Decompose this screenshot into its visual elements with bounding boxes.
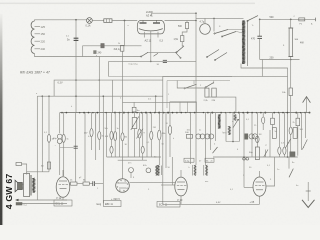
wire x210 vertical (210, 113, 212, 150)
divider resistor R6 (212, 88, 217, 102)
resistor R15 (158, 130, 167, 140)
label 4W right (300, 42, 304, 45)
node rail96 b (48, 95, 50, 97)
node HT b (195, 20, 197, 22)
black scan edge left (0, 14, 3, 225)
wire x147 (146, 113, 148, 157)
potentiometer P1 (137, 113, 144, 157)
misc value labels (36, 16, 313, 191)
switch S1b (176, 46, 184, 53)
wire x85 vertical (84, 113, 86, 182)
node rail96 a (42, 95, 44, 97)
tap 150 (35, 32, 46, 36)
wire coil bottom to bottom bus (35, 54, 142, 57)
resistor R8 (62, 134, 65, 142)
label box V11 (104, 201, 122, 207)
switch S2 arm b (221, 32, 236, 38)
tap 220 (35, 40, 46, 44)
label lang (97, 203, 102, 206)
cathode lead down (150, 31, 152, 62)
switch S2 arm a (214, 30, 228, 35)
wire down from node 259 (259, 19, 261, 36)
electrolytic C15 tall (249, 113, 259, 160)
ground bus junction dots (61, 112, 310, 114)
wire line y160 (118, 159, 147, 161)
wire right line y157 (213, 156, 298, 158)
capacitor C6 40u (53, 134, 62, 144)
variable capacitor C14 (233, 119, 239, 128)
wire x233 vertical (232, 113, 234, 142)
wire y52 to right (147, 51, 176, 53)
capacitor C17 dark (290, 152, 295, 157)
wire x122 upper (122, 102, 124, 132)
trimmer C9 (131, 113, 139, 157)
tuning coil L3 (218, 115, 221, 129)
coil can box (170, 102, 197, 113)
resistor R14 (150, 131, 153, 140)
tap 125 (35, 25, 46, 29)
wavechange switch arm 2 (205, 80, 214, 88)
coil assembly right of V10 (192, 113, 196, 176)
label 470 (223, 132, 227, 134)
switch arm right (289, 157, 293, 177)
wire x119 (119, 113, 121, 157)
resistor R9b (98, 132, 105, 140)
node fuse-out junction (124, 20, 126, 22)
switch arm set 2b (214, 53, 227, 61)
coil assembly left of V10 (156, 166, 162, 176)
resistor R17 above speaker (16, 163, 27, 175)
wire x76 lower segment (75, 113, 77, 182)
wire mains vertical (75, 20, 77, 113)
capacitor C20 dark (245, 134, 249, 140)
label 0,1u pair (129, 64, 160, 66)
resistor R12 (114, 132, 117, 141)
rail y96 (37, 95, 163, 97)
wire x59 lower (59, 144, 61, 175)
wire x59 vertical (59, 113, 61, 133)
coil L2 zigzag (157, 165, 159, 176)
transformer core line (247, 21, 249, 67)
resistor R21 (278, 113, 281, 157)
wire y61 line (109, 60, 196, 62)
wire top right line (260, 16, 316, 19)
wire x159 lower (158, 140, 160, 165)
mains switch S1d (176, 52, 182, 58)
wire x262 drop (261, 60, 263, 77)
wire x106 (106, 113, 108, 157)
output transformer core (31, 175, 32, 196)
resistor R18 (168, 113, 171, 157)
resistor R2 in antenna line (299, 18, 305, 25)
label V10 (177, 198, 183, 202)
switch arm set 2a (206, 50, 219, 58)
wire x190 vertical (190, 113, 192, 164)
divider resistor R5 (204, 88, 210, 102)
wire fuse to rectifier (112, 20, 137, 22)
wire y185 into tube (161, 184, 175, 186)
wire x95 vertical (95, 113, 97, 131)
wire x122 to tube (122, 141, 124, 179)
jack contacts (243, 158, 249, 161)
label box V10 (157, 202, 180, 208)
capacitor block C5 (114, 45, 124, 51)
capacitor pair C21 (249, 134, 258, 139)
wire x115 lower (114, 141, 116, 158)
wire y46 branch (83, 46, 142, 57)
wire x226 vertical (225, 113, 227, 142)
output transformer Tr2 primary (24, 174, 30, 197)
mains switch S1 (141, 52, 149, 57)
wire x112.5 drop (112, 80, 114, 113)
wire x95 lower (95, 113, 97, 160)
wire transformer top (27, 172, 49, 175)
capacitor C3 (251, 36, 262, 59)
wire lamp to fuse (92, 20, 104, 22)
resistor R25 (272, 128, 276, 139)
label box V12 (54, 200, 72, 206)
tap 240 (35, 47, 46, 51)
output transformer Tr2 secondary (33, 178, 35, 193)
mains switch S1c (154, 53, 159, 56)
wire y147 link (60, 146, 74, 148)
node at 214 (213, 18, 215, 20)
wire x111 upper (111, 113, 113, 131)
screen resistor row (70, 180, 103, 187)
wire x63 vertical (63, 113, 65, 135)
wire x91 vertical (91, 113, 93, 150)
label +190V (111, 197, 120, 201)
potentiometer P3 arrow (286, 138, 291, 147)
wire x301 vertical (301, 113, 303, 150)
wire arm to winding a (228, 29, 244, 31)
wire y141 link (226, 141, 239, 143)
pilot lamp La1 (86, 18, 93, 28)
capacitor C18 small (74, 146, 78, 148)
wire x215 vertical (215, 113, 217, 141)
wire x239 vertical (238, 113, 240, 142)
wire heater bottom (163, 202, 260, 204)
wire bottom left y203.5 (16, 202, 67, 206)
antenna arrow up (303, 97, 311, 113)
wire rectifier anode line right (165, 20, 197, 22)
anode plate 2 (153, 21, 160, 24)
arrow bottom left (15, 199, 19, 201)
wire dividers right (207, 97, 236, 113)
wire tube V11 right (130, 181, 176, 183)
capacitor pair C13 (205, 134, 214, 139)
wire x270 vertical (269, 130, 271, 157)
wire x305 vertical (305, 113, 307, 138)
wire into V13 left (244, 186, 253, 188)
node rail96 d (155, 95, 157, 112)
wire x103 long (103, 95, 105, 203)
wire switch feed down (213, 18, 215, 31)
wire x290 lower (290, 96, 292, 128)
wire switch pivots left (177, 80, 205, 88)
capacitor block C4b (93, 50, 96, 54)
tube V13 envelope (253, 171, 266, 204)
feedthrough capacitor C19 (163, 60, 167, 62)
resistor R11 (110, 146, 113, 153)
coil assembly 2 right of V10 (204, 113, 208, 176)
wire bottom left y200 (16, 199, 67, 201)
shield box outline (163, 76, 288, 204)
switch arm mid (213, 147, 218, 153)
fuse Si1 (104, 19, 112, 23)
node mains junction (75, 19, 77, 21)
wire x111 mid (111, 140, 113, 147)
tube V12 envelope (56, 170, 70, 200)
wire HT vertical x196 (195, 13, 197, 112)
resistor R23 (289, 127, 292, 157)
capacitor C7 (121, 133, 128, 141)
label box Sp2 (205, 158, 214, 162)
tuning coil L5 (234, 115, 236, 121)
wire y59.5 right (260, 57, 300, 61)
resistor R7 (47, 134, 54, 142)
capacitor pair C12 (196, 134, 205, 139)
capacitor C10 circle (143, 165, 151, 173)
node top right (259, 19, 261, 21)
inner frame line (109, 77, 232, 109)
wire x49 vertical lower (48, 142, 50, 172)
wire x142 upper (142, 113, 144, 147)
capacitor C11 circle (129, 168, 134, 179)
capacitor C1 on mains vertical (67, 38, 78, 41)
resistor R24 (296, 113, 300, 156)
tube V10 envelope (175, 170, 187, 204)
wire speaker to transformer (22, 185, 24, 189)
scan top smear (0, 3, 255, 5)
speaker LS (15, 180, 22, 191)
wire x244 vertical (243, 113, 245, 188)
resistor R10 (105, 131, 113, 140)
resistor R22 (283, 113, 286, 157)
heater pin right (157, 32, 159, 38)
tuning coil L4 (228, 126, 230, 135)
capacitor C16 rect (271, 113, 275, 130)
rectifier tube V1 envelope (137, 20, 164, 34)
cathode arc (139, 29, 163, 31)
wire HT line to transformer (196, 17, 244, 19)
wire junction down to cap block (124, 21, 126, 46)
wire x122.5 upper drop (121, 51, 123, 102)
label V12 (56, 196, 62, 200)
wire x42 vertical (41, 96, 43, 172)
wire V13 right side (266, 157, 275, 186)
resistor R13 (141, 146, 144, 153)
wire x166 vertical (165, 113, 167, 168)
heater distribution wire 6.3V (54, 79, 163, 96)
wire x108 link (108, 61, 110, 76)
wire x151 lower (150, 140, 152, 157)
wire x128 (127, 113, 129, 157)
wire x37 vertical (36, 96, 38, 200)
wire x252 vertical (251, 113, 253, 157)
ground arrow bottom right (302, 182, 315, 208)
heater wire from transformer (241, 64, 288, 77)
resistor R9 (84, 129, 93, 137)
wire top line from tube to HT node (152, 13, 196, 16)
text RFT EAS 1887 (20, 70, 50, 74)
resistor R1 10k (282, 19, 293, 95)
anode plate 1 (140, 21, 147, 24)
resistor R19 horizontal (185, 132, 193, 138)
wire x151 upper (150, 113, 152, 132)
resistor R4 (174, 29, 188, 47)
label AZ 11 below tube (145, 39, 164, 43)
capacitor C22 oval (255, 136, 259, 143)
label +65 (250, 201, 255, 204)
resistor R3 (178, 21, 189, 29)
wire x63 lower (63, 142, 65, 176)
potentiometer P4 arrow (302, 140, 307, 150)
electrolytic C2 (200, 18, 211, 34)
node rail96 c (75, 95, 77, 97)
antenna terminal tick (315, 18, 317, 22)
mains transformer Tr1 winding (242, 21, 245, 64)
resistor R20 (262, 113, 265, 130)
wire coil top to top bus (35, 20, 87, 21)
title 4 GW 67 (4, 174, 14, 210)
label AZ41 above (146, 11, 153, 18)
wire arm to winding b (236, 32, 244, 34)
wire x172 drop (171, 157, 173, 185)
potentiometer P2 (264, 150, 268, 158)
wavechange switch arm 1 (184, 80, 197, 89)
wire x115 upper (114, 113, 116, 132)
tube V11 base circle (116, 179, 130, 193)
rail y102 (123, 101, 197, 103)
heater pin left (143, 32, 145, 38)
voltage selector coil L1 (31, 21, 34, 54)
node HT a (195, 12, 197, 14)
resistor R16 on x49 chain (41, 162, 51, 169)
label box Sp1 (184, 158, 194, 162)
ballast resistor R27 tall (283, 28, 299, 57)
wire x99 heater (98, 57, 100, 151)
capacitor block C4 (98, 44, 105, 55)
wire x111 lower (111, 153, 113, 157)
ground bus y112.6 (60, 112, 310, 114)
switch S3 arm (247, 16, 258, 22)
capacitor C8 above bus (132, 102, 140, 112)
node 290 (290, 19, 292, 21)
wire x142 lower (142, 153, 144, 160)
resistor R26 (293, 128, 297, 139)
wire x159 upper (158, 113, 160, 130)
wire x49 vertical upper (48, 96, 50, 134)
wire line y157 (107, 156, 161, 158)
